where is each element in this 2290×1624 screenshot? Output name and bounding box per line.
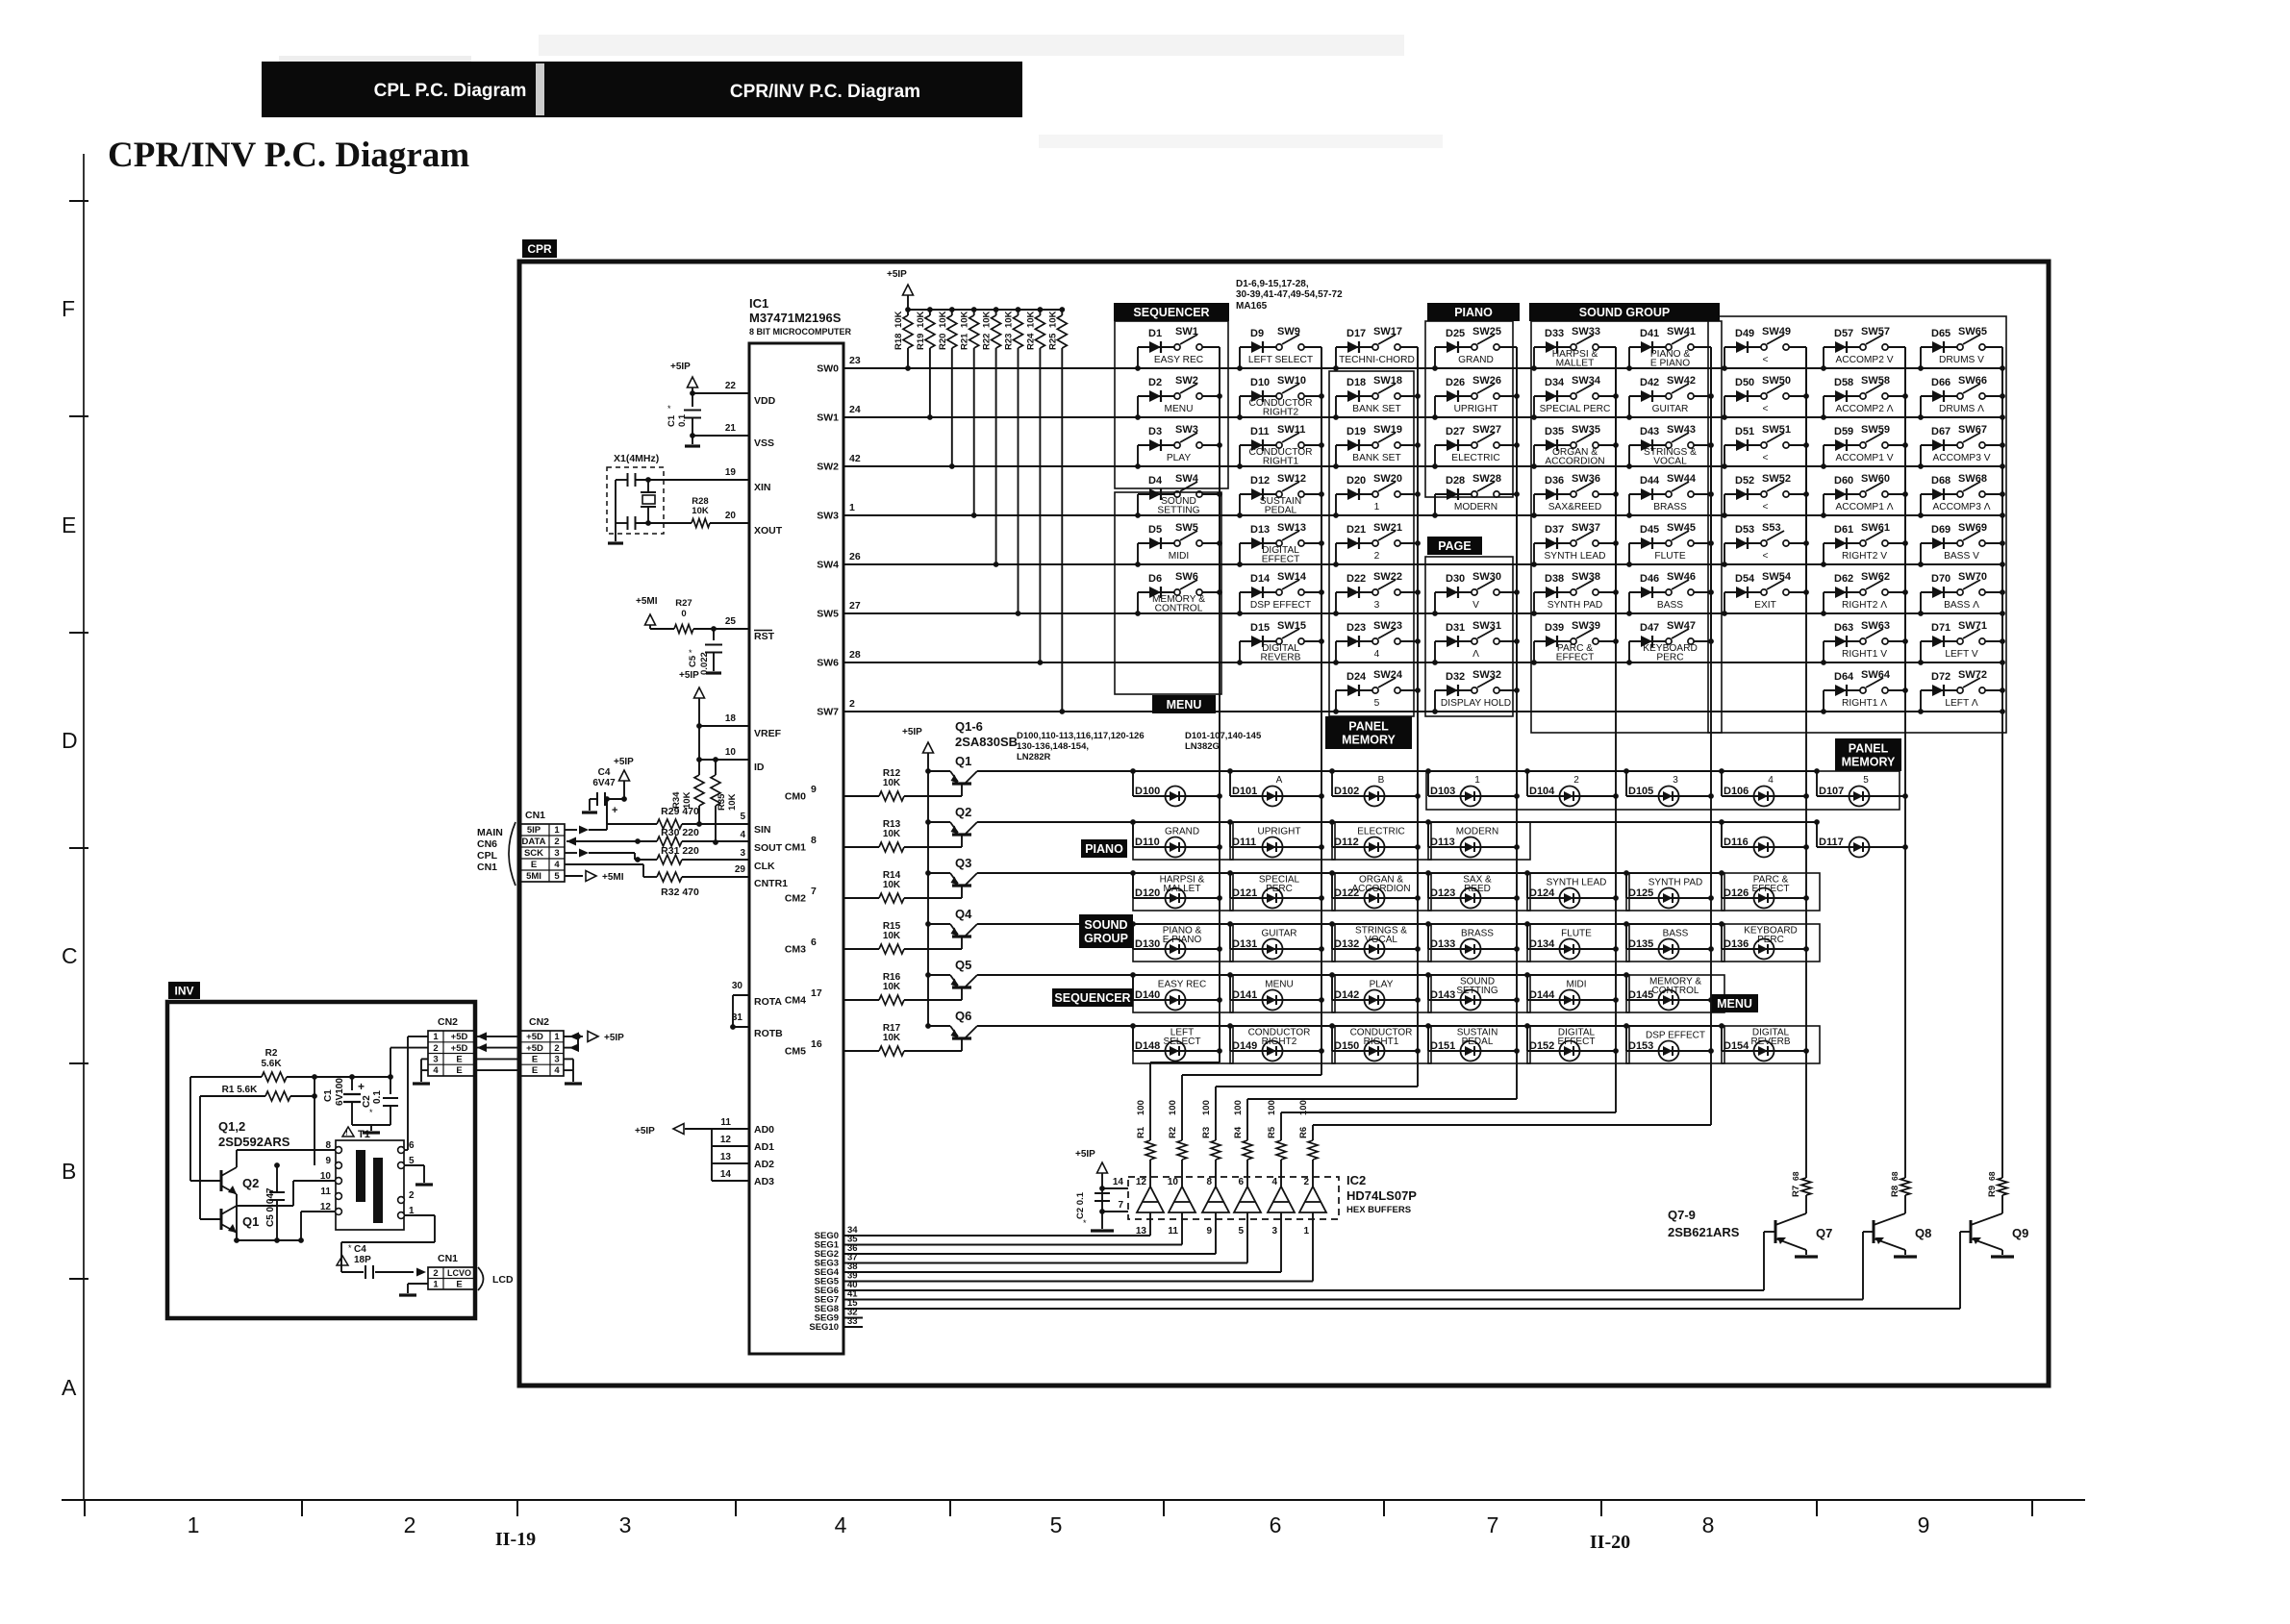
- svg-text:D31: D31: [1446, 622, 1465, 634]
- svg-text:VOCAL: VOCAL: [1365, 935, 1397, 945]
- svg-text:D134: D134: [1529, 938, 1555, 950]
- svg-text:MA165: MA165: [1236, 301, 1268, 312]
- svg-text:D117: D117: [1819, 837, 1844, 848]
- svg-text:10K: 10K: [1025, 311, 1036, 328]
- svg-text:Q4: Q4: [955, 907, 972, 921]
- svg-text:RST: RST: [754, 631, 775, 642]
- svg-text:4: 4: [1374, 649, 1380, 660]
- svg-text:RIGHT2: RIGHT2: [1263, 408, 1299, 418]
- svg-text:CN1: CN1: [477, 862, 497, 873]
- svg-text:21: 21: [725, 423, 737, 434]
- svg-text:+5IP: +5IP: [604, 1033, 624, 1043]
- svg-text:30-39,41-47,49-54,57-72: 30-39,41-47,49-54,57-72: [1236, 289, 1343, 300]
- svg-text:5: 5: [740, 812, 745, 822]
- svg-text:GUITAR: GUITAR: [1261, 929, 1296, 939]
- svg-text:R7: R7: [1791, 1186, 1801, 1197]
- svg-text:REVERB: REVERB: [1750, 1037, 1790, 1047]
- svg-text:VSS: VSS: [754, 437, 774, 449]
- svg-text:D132: D132: [1334, 938, 1359, 950]
- svg-text:23: 23: [849, 355, 861, 366]
- svg-text:SW30: SW30: [1472, 571, 1501, 583]
- svg-text:T1: T1: [358, 1129, 370, 1140]
- svg-text:Q8: Q8: [1915, 1226, 1931, 1240]
- svg-text:D43: D43: [1640, 426, 1659, 437]
- svg-text:4: 4: [554, 1065, 560, 1076]
- svg-text:68: 68: [1890, 1171, 1900, 1181]
- svg-text:SYNTH LEAD: SYNTH LEAD: [1547, 878, 1607, 888]
- svg-text:SOUND: SOUND: [1084, 918, 1127, 932]
- svg-text:CN2: CN2: [438, 1016, 458, 1028]
- svg-text:26: 26: [849, 551, 861, 562]
- svg-text:UPRIGHT: UPRIGHT: [1258, 827, 1301, 837]
- svg-text:PANEL: PANEL: [1849, 742, 1889, 756]
- svg-text:68: 68: [1791, 1171, 1800, 1181]
- svg-text:SELECT: SELECT: [1164, 1037, 1201, 1047]
- svg-text:Q1: Q1: [955, 754, 971, 768]
- svg-text:SW24: SW24: [1373, 669, 1403, 681]
- svg-text:CPL P.C. Diagram: CPL P.C. Diagram: [374, 81, 527, 101]
- svg-text:RIGHT1: RIGHT1: [1364, 1037, 1399, 1047]
- svg-text:D70: D70: [1931, 573, 1950, 585]
- svg-text:<: <: [1763, 404, 1769, 414]
- svg-text:ACCOMP2 Λ: ACCOMP2 Λ: [1835, 404, 1893, 414]
- svg-text:D58: D58: [1834, 377, 1853, 388]
- svg-text:2: 2: [433, 1268, 438, 1279]
- svg-text:E: E: [532, 1065, 538, 1076]
- svg-text:D33: D33: [1545, 328, 1564, 339]
- svg-text:VDD: VDD: [754, 395, 776, 407]
- svg-text:+5MI: +5MI: [636, 596, 658, 607]
- svg-text:SW68: SW68: [1958, 473, 1987, 485]
- svg-text:E: E: [531, 860, 537, 870]
- svg-text:SW36: SW36: [1572, 473, 1600, 485]
- svg-text:+5IP: +5IP: [670, 362, 691, 372]
- svg-text:D4: D4: [1148, 475, 1163, 487]
- svg-text:D141: D141: [1232, 989, 1257, 1001]
- svg-text:SW45: SW45: [1667, 522, 1696, 534]
- svg-text:AD0: AD0: [754, 1124, 774, 1136]
- svg-text:+5D: +5D: [451, 1032, 468, 1042]
- svg-text:Q7: Q7: [1816, 1226, 1832, 1240]
- svg-text:RIGHT2 V: RIGHT2 V: [1842, 551, 1887, 562]
- svg-text:D3: D3: [1148, 426, 1162, 437]
- svg-text:SW31: SW31: [1472, 620, 1501, 632]
- svg-text:D26: D26: [1446, 377, 1465, 388]
- svg-text:BRASS: BRASS: [1461, 929, 1494, 939]
- svg-text:D116: D116: [1724, 837, 1749, 848]
- svg-text:D110: D110: [1135, 837, 1160, 848]
- svg-text:SW58: SW58: [1861, 375, 1890, 387]
- svg-text:LN282R: LN282R: [1017, 752, 1051, 762]
- svg-text:RIGHT2 Λ: RIGHT2 Λ: [1842, 600, 1887, 611]
- svg-text:PEDAL: PEDAL: [1265, 506, 1297, 516]
- svg-text:SW70: SW70: [1958, 571, 1987, 583]
- svg-text:2: 2: [849, 698, 855, 710]
- svg-text:D18: D18: [1346, 377, 1366, 388]
- svg-text:MAIN: MAIN: [477, 827, 503, 838]
- svg-text:D100: D100: [1135, 786, 1160, 797]
- svg-text:10K: 10K: [883, 931, 901, 941]
- svg-text:FLUTE: FLUTE: [1561, 929, 1592, 939]
- svg-text:9: 9: [325, 1156, 331, 1166]
- svg-text:CPR/INV P.C. Diagram: CPR/INV P.C. Diagram: [730, 82, 920, 102]
- svg-text:10K: 10K: [960, 311, 970, 328]
- svg-text:LCVO: LCVO: [447, 1268, 471, 1278]
- svg-text:3: 3: [554, 848, 559, 859]
- svg-text:LEFT SELECT: LEFT SELECT: [1248, 355, 1313, 365]
- svg-text:MEMORY: MEMORY: [1842, 756, 1896, 769]
- svg-text:R3: R3: [1201, 1127, 1212, 1138]
- svg-text:FLUTE: FLUTE: [1654, 551, 1685, 562]
- svg-text:10K: 10K: [883, 829, 901, 839]
- svg-text:SEQUENCER: SEQUENCER: [1133, 306, 1209, 319]
- svg-text:BASS Λ: BASS Λ: [1944, 600, 1979, 611]
- svg-text:SETTING: SETTING: [1456, 986, 1498, 996]
- svg-text:D44: D44: [1640, 475, 1660, 487]
- svg-text:DRUMS Λ: DRUMS Λ: [1939, 404, 1984, 414]
- svg-text:SW28: SW28: [1472, 473, 1501, 485]
- svg-text:AD2: AD2: [754, 1159, 774, 1170]
- svg-text:BASS: BASS: [1663, 929, 1689, 939]
- svg-text:B: B: [1378, 775, 1385, 786]
- svg-text:D27: D27: [1446, 426, 1465, 437]
- svg-text:D102: D102: [1334, 786, 1359, 797]
- svg-text:REVERB: REVERB: [1261, 653, 1301, 663]
- svg-text:SW1: SW1: [817, 412, 839, 424]
- svg-text:SW52: SW52: [1762, 473, 1791, 485]
- svg-text:LCD: LCD: [492, 1274, 514, 1286]
- svg-text:D28: D28: [1446, 475, 1465, 487]
- svg-text:SW12: SW12: [1277, 473, 1306, 485]
- svg-text:ACCOMP2 V: ACCOMP2 V: [1835, 355, 1893, 365]
- svg-text:D38: D38: [1545, 573, 1564, 585]
- svg-text:6V47: 6V47: [592, 778, 616, 788]
- svg-text:D5: D5: [1148, 524, 1162, 536]
- svg-text:SW33: SW33: [1572, 326, 1600, 337]
- svg-text:+5IP: +5IP: [1075, 1149, 1095, 1160]
- svg-text:10K: 10K: [1047, 311, 1058, 328]
- svg-text:SW69: SW69: [1958, 522, 1987, 534]
- svg-text:27: 27: [849, 600, 861, 612]
- svg-text:SW5: SW5: [817, 609, 839, 620]
- svg-text:24: 24: [849, 404, 861, 415]
- svg-text:R25: R25: [1047, 333, 1058, 350]
- svg-text:D57: D57: [1834, 328, 1853, 339]
- svg-text:SW51: SW51: [1762, 424, 1791, 436]
- svg-text:D149: D149: [1232, 1040, 1257, 1052]
- svg-text:C4: C4: [354, 1244, 366, 1255]
- svg-text:SW15: SW15: [1277, 620, 1306, 632]
- svg-text:D112: D112: [1334, 837, 1359, 848]
- svg-text:E: E: [532, 1055, 538, 1065]
- svg-text:9: 9: [1206, 1226, 1212, 1237]
- svg-text:SW26: SW26: [1472, 375, 1501, 387]
- svg-text:IC2: IC2: [1346, 1173, 1366, 1187]
- svg-text:D45: D45: [1640, 524, 1659, 536]
- svg-text:D154: D154: [1724, 1040, 1749, 1052]
- svg-text:SW61: SW61: [1861, 522, 1890, 534]
- svg-text:2: 2: [1303, 1177, 1309, 1187]
- svg-text:SW14: SW14: [1277, 571, 1307, 583]
- svg-text:D153: D153: [1628, 1040, 1653, 1052]
- svg-text:SW3: SW3: [817, 511, 839, 522]
- svg-text:1: 1: [433, 1280, 439, 1290]
- svg-text:R27: R27: [675, 598, 692, 609]
- svg-text:6: 6: [811, 937, 817, 948]
- svg-text:XIN: XIN: [754, 482, 771, 493]
- svg-text:R31 220: R31 220: [661, 845, 699, 857]
- svg-text:PANEL: PANEL: [1348, 720, 1389, 734]
- svg-text:CM0: CM0: [785, 791, 806, 803]
- svg-text:Λ: Λ: [1472, 649, 1479, 660]
- svg-text:LN382G: LN382G: [1185, 741, 1220, 752]
- svg-text:D135: D135: [1628, 938, 1653, 950]
- svg-text:SW3: SW3: [1175, 424, 1198, 436]
- svg-text:!: !: [340, 1258, 342, 1266]
- svg-text:D125: D125: [1628, 887, 1653, 899]
- svg-text:PLAY: PLAY: [1167, 453, 1191, 463]
- svg-text:PERC: PERC: [1656, 653, 1683, 663]
- svg-text:SW2: SW2: [817, 462, 839, 473]
- svg-text:SYNTH LEAD: SYNTH LEAD: [1545, 551, 1606, 562]
- svg-text:SW17: SW17: [1373, 326, 1402, 337]
- svg-text:D121: D121: [1232, 887, 1257, 899]
- svg-text:SW38: SW38: [1572, 571, 1600, 583]
- svg-text:SW43: SW43: [1667, 424, 1696, 436]
- svg-text:25: 25: [725, 616, 737, 627]
- svg-text:D142: D142: [1334, 989, 1359, 1001]
- svg-text:*: *: [689, 648, 692, 658]
- svg-text:33: 33: [847, 1316, 858, 1327]
- svg-text:11: 11: [320, 1187, 331, 1197]
- svg-text:D22: D22: [1346, 573, 1366, 585]
- svg-text:SW50: SW50: [1762, 375, 1791, 387]
- svg-text:D120: D120: [1135, 887, 1160, 899]
- svg-text:SW37: SW37: [1572, 522, 1600, 534]
- svg-text:MIDI: MIDI: [1566, 980, 1586, 990]
- svg-text:CONTROL: CONTROL: [1652, 986, 1699, 996]
- svg-text:SW23: SW23: [1373, 620, 1402, 632]
- svg-text:1: 1: [1303, 1226, 1309, 1237]
- svg-text:SW4: SW4: [1175, 473, 1199, 485]
- svg-text:SW21: SW21: [1373, 522, 1402, 534]
- svg-text:MENU: MENU: [1165, 404, 1194, 414]
- svg-text:D144: D144: [1529, 989, 1555, 1001]
- svg-text:<: <: [1763, 502, 1769, 512]
- svg-text:SW44: SW44: [1667, 473, 1697, 485]
- svg-text:4: 4: [433, 1065, 439, 1076]
- svg-text:SW18: SW18: [1373, 375, 1402, 387]
- svg-text:19: 19: [725, 467, 737, 478]
- svg-text:+5IP: +5IP: [902, 727, 922, 737]
- svg-text:D101-107,140-145: D101-107,140-145: [1185, 731, 1262, 741]
- svg-text:6: 6: [409, 1140, 415, 1151]
- svg-text:1: 1: [554, 1032, 560, 1042]
- svg-text:SW65: SW65: [1958, 326, 1987, 337]
- svg-text:D131: D131: [1232, 938, 1257, 950]
- svg-text:PLAY: PLAY: [1370, 980, 1394, 990]
- svg-text:REED: REED: [1464, 884, 1491, 894]
- svg-text:DISPLAY HOLD: DISPLAY HOLD: [1441, 698, 1511, 709]
- svg-text:D151: D151: [1430, 1040, 1455, 1052]
- svg-text:D67: D67: [1931, 426, 1950, 437]
- svg-text:100: 100: [1233, 1100, 1244, 1115]
- svg-text:0.1: 0.1: [372, 1090, 383, 1104]
- svg-text:<: <: [1763, 355, 1769, 365]
- svg-text:DSP EFFECT: DSP EFFECT: [1646, 1031, 1705, 1041]
- svg-text:5.6K: 5.6K: [261, 1059, 282, 1069]
- svg-text:18P: 18P: [354, 1255, 371, 1265]
- svg-text:R32 470: R32 470: [661, 887, 699, 898]
- svg-text:PIANO: PIANO: [1085, 842, 1123, 856]
- svg-text:TECHNI-CHORD: TECHNI-CHORD: [1339, 355, 1415, 365]
- svg-text:1: 1: [1474, 775, 1480, 786]
- svg-text:SW72: SW72: [1958, 669, 1987, 681]
- svg-text:CM4: CM4: [785, 995, 806, 1007]
- svg-text:GUITAR: GUITAR: [1652, 404, 1689, 414]
- svg-text:Q6: Q6: [955, 1009, 971, 1023]
- svg-text:PAGE: PAGE: [1438, 539, 1472, 553]
- svg-text:10K: 10K: [883, 880, 901, 890]
- svg-text:100: 100: [1201, 1100, 1212, 1115]
- svg-text:!: !: [345, 1129, 348, 1137]
- svg-text:R4: R4: [1233, 1126, 1244, 1138]
- svg-text:3: 3: [1673, 775, 1678, 786]
- svg-text:RIGHT1 V: RIGHT1 V: [1842, 649, 1887, 660]
- svg-text:E: E: [456, 1065, 462, 1076]
- svg-text:SW5: SW5: [1175, 522, 1198, 534]
- svg-text:SOUND GROUP: SOUND GROUP: [1579, 306, 1670, 319]
- svg-text:D101: D101: [1232, 786, 1257, 797]
- svg-text:LEFT V: LEFT V: [1945, 649, 1978, 660]
- svg-text:DSP EFFECT: DSP EFFECT: [1250, 600, 1311, 611]
- svg-text:R23: R23: [1004, 334, 1015, 350]
- svg-text:D130: D130: [1135, 938, 1160, 950]
- svg-text:LEFT Λ: LEFT Λ: [1945, 698, 1978, 709]
- svg-text:5: 5: [1374, 698, 1380, 709]
- svg-text:SW49: SW49: [1762, 326, 1791, 337]
- svg-text:30: 30: [732, 981, 743, 991]
- svg-text:ACCORDION: ACCORDION: [1351, 884, 1410, 894]
- svg-text:8: 8: [811, 835, 817, 846]
- svg-text:SW66: SW66: [1958, 375, 1987, 387]
- svg-text:D25: D25: [1446, 328, 1465, 339]
- svg-text:D54: D54: [1735, 573, 1755, 585]
- svg-text:8: 8: [1702, 1512, 1715, 1537]
- svg-text:D49: D49: [1735, 328, 1754, 339]
- svg-text:D126: D126: [1724, 887, 1749, 899]
- svg-text:+5IP: +5IP: [679, 670, 699, 681]
- svg-text:PEDAL: PEDAL: [1462, 1037, 1494, 1047]
- svg-text:Q2: Q2: [242, 1176, 259, 1190]
- svg-text:R30 220: R30 220: [661, 827, 699, 838]
- svg-text:3: 3: [1271, 1226, 1277, 1237]
- svg-text:INV: INV: [174, 984, 193, 997]
- svg-text:11: 11: [1168, 1226, 1178, 1237]
- svg-text:R2: R2: [265, 1048, 278, 1059]
- svg-text:28: 28: [849, 649, 861, 661]
- svg-text:EFFECT: EFFECT: [1558, 1037, 1596, 1047]
- svg-text:2SB621ARS: 2SB621ARS: [1668, 1225, 1740, 1239]
- svg-text:10K: 10K: [883, 982, 901, 992]
- svg-text:R9: R9: [1987, 1186, 1998, 1197]
- svg-text:D14: D14: [1250, 573, 1271, 585]
- svg-text:2: 2: [409, 1190, 415, 1201]
- svg-text:2: 2: [404, 1512, 416, 1537]
- svg-text:E: E: [456, 1280, 462, 1290]
- svg-text:D10: D10: [1250, 377, 1270, 388]
- svg-text:8 BIT MICROCOMPUTER: 8 BIT MICROCOMPUTER: [749, 327, 852, 337]
- svg-text:C1: C1: [323, 1089, 334, 1102]
- svg-text:SW13: SW13: [1277, 522, 1306, 534]
- svg-text:14: 14: [1113, 1177, 1124, 1187]
- svg-text:*: *: [667, 404, 671, 413]
- svg-text:MENU: MENU: [1265, 980, 1293, 990]
- svg-text:2: 2: [1374, 551, 1380, 562]
- svg-text:*: *: [1083, 1218, 1087, 1228]
- svg-text:MIDI: MIDI: [1169, 551, 1190, 562]
- svg-text:PERC: PERC: [1757, 935, 1784, 945]
- svg-text:0.1: 0.1: [677, 413, 688, 427]
- svg-text:100: 100: [1267, 1100, 1277, 1115]
- svg-text:22: 22: [725, 381, 737, 391]
- svg-text:68: 68: [1987, 1171, 1997, 1181]
- svg-text:SPECIAL PERC: SPECIAL PERC: [1540, 404, 1611, 414]
- svg-text:RIGHT1: RIGHT1: [1263, 457, 1299, 467]
- svg-text:D9: D9: [1250, 328, 1264, 339]
- svg-text:42: 42: [849, 453, 861, 464]
- svg-text:2SA830SB: 2SA830SB: [955, 735, 1018, 749]
- svg-text:RIGHT2: RIGHT2: [1262, 1037, 1297, 1047]
- svg-text:R20: R20: [938, 334, 948, 350]
- svg-text:CN1: CN1: [525, 810, 545, 821]
- svg-text:R21: R21: [960, 333, 970, 350]
- svg-text:MODERN: MODERN: [1456, 827, 1498, 837]
- svg-text:D47: D47: [1640, 622, 1659, 634]
- svg-text:R6: R6: [1298, 1127, 1309, 1138]
- svg-text:C2 0.1: C2 0.1: [1075, 1191, 1086, 1219]
- svg-text:SW60: SW60: [1861, 473, 1890, 485]
- svg-text:C1: C1: [667, 414, 677, 427]
- svg-text:18: 18: [725, 713, 737, 724]
- svg-text:SW63: SW63: [1861, 620, 1890, 632]
- svg-text:100: 100: [1298, 1100, 1309, 1115]
- svg-text:D103: D103: [1430, 786, 1455, 797]
- svg-text:VOCAL: VOCAL: [1653, 457, 1687, 467]
- svg-text:D12: D12: [1250, 475, 1270, 487]
- svg-text:SEQUENCER: SEQUENCER: [1054, 991, 1130, 1005]
- svg-text:DRUMS V: DRUMS V: [1939, 355, 1984, 365]
- svg-text:3: 3: [554, 1055, 559, 1065]
- svg-text:GROUP: GROUP: [1084, 932, 1128, 945]
- svg-text:2: 2: [433, 1043, 438, 1054]
- svg-text:D59: D59: [1834, 426, 1853, 437]
- svg-text:5: 5: [1863, 775, 1869, 786]
- svg-text:II-19: II-19: [495, 1529, 536, 1550]
- svg-text:6: 6: [1270, 1512, 1282, 1537]
- svg-text:12: 12: [720, 1135, 732, 1145]
- svg-text:SW19: SW19: [1373, 424, 1402, 436]
- svg-text:Q7-9: Q7-9: [1668, 1208, 1696, 1222]
- svg-text:17: 17: [811, 987, 822, 999]
- svg-text:SOUT: SOUT: [754, 842, 783, 854]
- svg-text:SW67: SW67: [1958, 424, 1987, 436]
- svg-text:R35: R35: [717, 793, 727, 811]
- svg-text:C4: C4: [598, 767, 611, 778]
- svg-text:ACCOMP1 Λ: ACCOMP1 Λ: [1835, 502, 1893, 512]
- svg-text:BASS V: BASS V: [1944, 551, 1979, 562]
- svg-text:SW7: SW7: [817, 707, 839, 718]
